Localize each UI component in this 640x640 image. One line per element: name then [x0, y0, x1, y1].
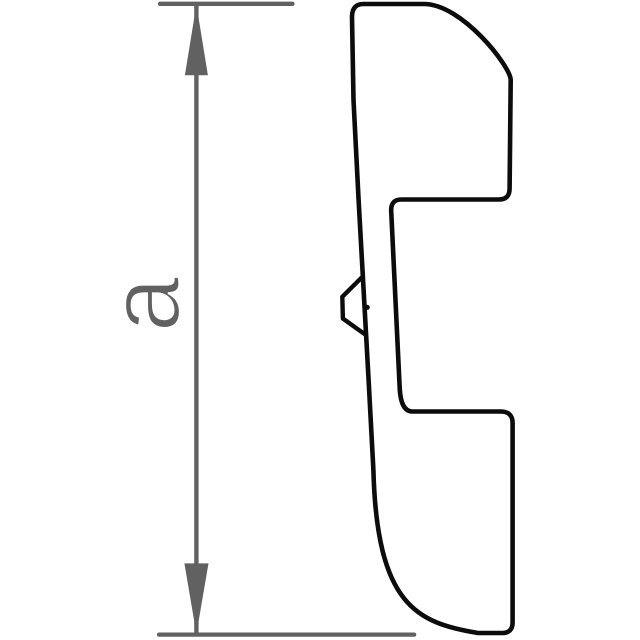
clip notch bump on back face [342, 277, 364, 334]
extension line top [160, 2, 293, 6]
arrowhead top [185, 5, 208, 76]
arrowhead bottom [184, 563, 208, 634]
dimension line [194, 5, 198, 634]
extension line bottom (floor line) [159, 632, 414, 636]
small nub on back face [365, 305, 370, 310]
svg-text:a: a [89, 276, 201, 332]
skirting profile outline [352, 4, 513, 633]
